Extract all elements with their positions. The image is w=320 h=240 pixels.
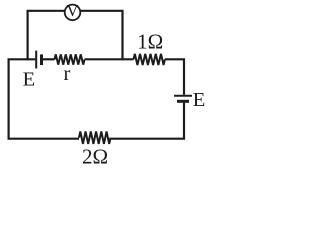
svg-text:1Ω: 1Ω xyxy=(137,30,163,54)
svg-text:r: r xyxy=(64,63,71,85)
svg-text:V: V xyxy=(67,1,79,20)
svg-text:E: E xyxy=(23,68,36,90)
svg-text:2Ω: 2Ω xyxy=(82,144,108,166)
svg-text:E: E xyxy=(193,89,206,111)
